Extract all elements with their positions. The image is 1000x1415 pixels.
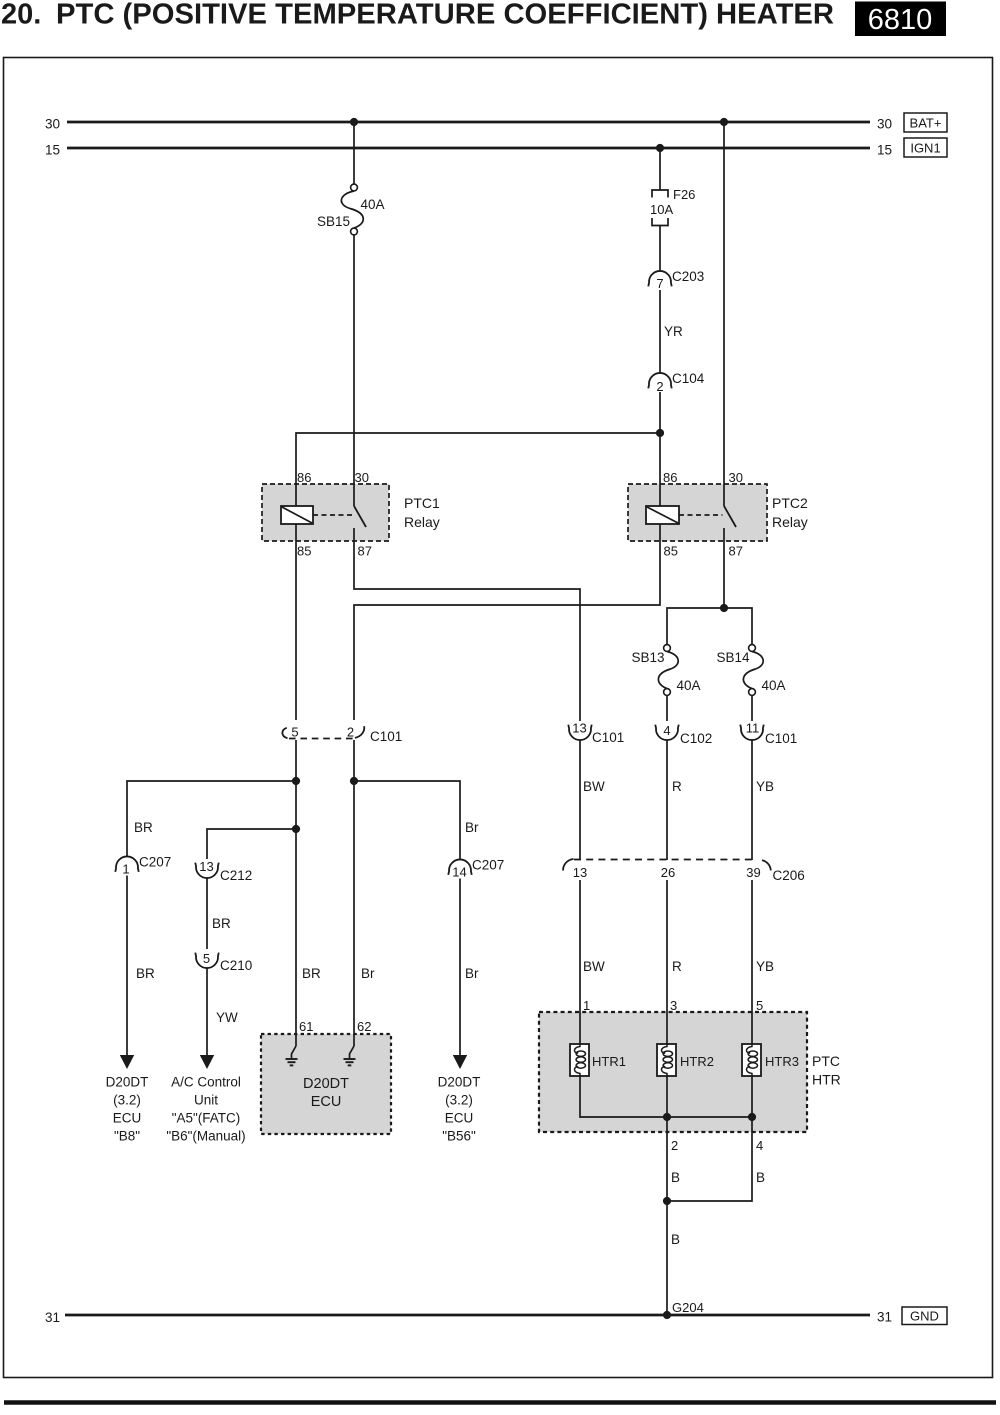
label A/C Control Unit	[166, 1075, 245, 1144]
svg-text:86: 86	[297, 470, 311, 485]
wire C101 pin 5 to junction	[295, 740, 297, 781]
svg-text:SB15: SB15	[317, 214, 350, 229]
junction dot PTC2-87	[720, 604, 728, 612]
svg-text:30: 30	[355, 470, 369, 485]
IGN1 terminal box	[904, 138, 947, 157]
svg-text:BR: BR	[212, 916, 231, 931]
bottom rule	[4, 1400, 996, 1405]
wire SB15 to PTC1 pin 30	[353, 235, 355, 484]
wire PTC1 pin 85 to C101 pin 5	[295, 541, 297, 720]
svg-text:11: 11	[746, 721, 760, 736]
svg-text:2: 2	[347, 725, 354, 740]
svg-text:C207: C207	[472, 858, 504, 873]
svg-text:PTC1: PTC1	[404, 495, 440, 511]
junction dot bus30 / SB15	[350, 118, 358, 126]
svg-text:BAT+: BAT+	[910, 116, 942, 131]
svg-text:ECU: ECU	[311, 1094, 342, 1110]
svg-text:30: 30	[877, 117, 892, 132]
svg-text:GND: GND	[910, 1309, 939, 1324]
svg-text:13: 13	[199, 859, 213, 874]
arrow to A/C control unit	[200, 1055, 214, 1069]
junction dot C104 branch	[656, 429, 664, 437]
svg-text:40A: 40A	[361, 197, 385, 212]
svg-text:85: 85	[664, 544, 678, 559]
junction dot B wires	[663, 1197, 671, 1205]
svg-text:D20DT: D20DT	[438, 1075, 481, 1090]
label D20DT (3.2) ECU B8	[106, 1075, 149, 1144]
svg-text:HTR1: HTR1	[592, 1054, 626, 1069]
svg-text:HTR: HTR	[812, 1072, 841, 1088]
svg-text:BR: BR	[134, 820, 153, 835]
relay PTC2	[628, 470, 808, 559]
connector C101 pin 13	[568, 721, 624, 746]
wire junction to PTC1 pin 86	[296, 433, 660, 484]
svg-text:30: 30	[45, 117, 60, 132]
svg-text:D20DT: D20DT	[106, 1075, 149, 1090]
svg-text:YW: YW	[216, 1010, 238, 1025]
svg-text:D20DT: D20DT	[303, 1076, 349, 1092]
svg-text:BR: BR	[302, 966, 321, 981]
svg-text:Br: Br	[465, 966, 479, 981]
wire C101-11 to C206-39, YB	[752, 740, 774, 860]
svg-text:C206: C206	[773, 868, 805, 883]
wire C206-26 to HTR pin 3, R	[667, 880, 682, 1044]
svg-text:"B56": "B56"	[442, 1129, 476, 1144]
wire C102-4 to C206-26, R	[667, 740, 682, 860]
svg-text:C101: C101	[370, 729, 402, 744]
junction dot pin2 branch	[350, 777, 358, 785]
svg-text:13: 13	[572, 721, 586, 736]
wire junction to SB13	[667, 608, 724, 645]
wire C101 pin 2 to junction	[353, 740, 355, 781]
wire junction to PTC2 pin 86	[659, 433, 661, 484]
svg-text:4: 4	[663, 723, 670, 738]
wire junction to SB14	[724, 608, 752, 645]
svg-text:40A: 40A	[677, 678, 701, 693]
svg-text:31: 31	[877, 1310, 892, 1325]
svg-text:C210: C210	[220, 958, 252, 973]
wire junction to ground G204, B	[667, 1201, 680, 1315]
svg-text:HTR3: HTR3	[765, 1054, 799, 1069]
connector C104 pin 2	[648, 371, 704, 394]
wire HTR pin 2 to junction, B	[667, 1117, 680, 1201]
wire PTC1 pin 87 to C101 pin 13	[354, 541, 580, 721]
wire PTC2 pin 87 to fuse junction	[723, 541, 725, 608]
wire C212 to C210, BR	[207, 878, 231, 949]
wire SB14 to connector C101 pin 11	[751, 696, 753, 722]
svg-text:PTC2: PTC2	[772, 495, 808, 511]
heater element HTR1	[570, 1044, 626, 1076]
svg-text:Unit: Unit	[194, 1093, 218, 1108]
svg-text:2: 2	[656, 379, 663, 394]
svg-text:85: 85	[297, 544, 311, 559]
arrow to D20DT ECU B8	[120, 1055, 134, 1069]
svg-text:PTC (POSITIVE TEMPERATURE COEF: PTC (POSITIVE TEMPERATURE COEFFICIENT) H…	[56, 0, 834, 31]
connector C207 pin 14	[448, 858, 504, 880]
connector C206 pins 13,26,39	[563, 859, 805, 883]
svg-text:62: 62	[357, 1019, 371, 1034]
wire C206-39 to HTR pin 5, YB	[752, 880, 774, 1044]
svg-text:1: 1	[583, 998, 590, 1013]
ground symbol at ECU pin 62	[344, 1046, 356, 1065]
svg-text:YB: YB	[756, 959, 774, 974]
wire C207 pin 14 to D20DT ECU B56, Br	[460, 879, 479, 1057]
arrow to D20DT ECU B56	[453, 1055, 467, 1069]
svg-text:4: 4	[756, 1138, 763, 1153]
svg-text:(3.2): (3.2)	[445, 1093, 473, 1108]
svg-text:20.: 20.	[1, 0, 41, 31]
svg-text:C203: C203	[672, 269, 704, 284]
connector C212 pin 13	[195, 859, 252, 883]
svg-text:C207: C207	[139, 855, 171, 870]
svg-text:31: 31	[45, 1310, 60, 1325]
wire bus30 to fuse SB15	[353, 122, 355, 184]
svg-text:B: B	[756, 1170, 765, 1185]
wire branch to C212	[207, 829, 296, 859]
svg-text:BW: BW	[583, 959, 605, 974]
junction dot C212 branch	[292, 825, 300, 833]
svg-text:YB: YB	[756, 779, 774, 794]
wire C207 pin 1 to D20DT ECU B8, BR	[127, 876, 155, 1057]
svg-text:B: B	[671, 1232, 680, 1247]
label D20DT (3.2) ECU B56	[438, 1075, 481, 1144]
relay PTC1	[262, 470, 440, 559]
svg-text:15: 15	[877, 143, 892, 158]
wire HTR pin 4 to junction, B	[667, 1117, 765, 1201]
svg-text:C101: C101	[765, 731, 797, 746]
ECU box D20DT	[261, 1034, 391, 1134]
junction dot bus30 / PTC2	[720, 118, 728, 126]
node G204	[663, 1300, 704, 1319]
connector C102 pin 4	[655, 723, 712, 746]
fuse F26 10A	[650, 187, 695, 226]
svg-text:3: 3	[670, 998, 677, 1013]
svg-text:B: B	[671, 1170, 680, 1185]
svg-text:15: 15	[45, 143, 60, 158]
wire F26 to connector C203	[659, 226, 661, 272]
svg-text:40A: 40A	[762, 678, 786, 693]
svg-text:BW: BW	[583, 779, 605, 794]
svg-text:C101: C101	[592, 730, 624, 745]
svg-text:ECU: ECU	[445, 1111, 474, 1126]
svg-text:(3.2): (3.2)	[113, 1093, 141, 1108]
fuse SB14 40A	[716, 645, 785, 696]
BAT+ terminal box	[904, 113, 947, 132]
svg-text:Br: Br	[465, 820, 479, 835]
svg-text:5: 5	[203, 951, 210, 966]
svg-text:C104: C104	[672, 371, 705, 386]
svg-text:7: 7	[656, 276, 663, 291]
connector C203 pin 7	[648, 269, 704, 291]
svg-text:ECU: ECU	[113, 1111, 142, 1126]
wire SB13 to connector C102 pin 4	[666, 696, 668, 722]
connector C101 pins 5,2	[282, 725, 402, 745]
fuse SB15 40A	[317, 184, 385, 235]
wire bus15 to fuse F26	[659, 148, 661, 190]
svg-text:6810: 6810	[868, 4, 933, 36]
svg-text:Br: Br	[361, 966, 375, 981]
wire junction to ECU pin 62, Br	[354, 781, 375, 1046]
connector C101 pin 11	[740, 721, 797, 747]
svg-text:HTR2: HTR2	[680, 1054, 714, 1069]
wire junction to ECU pin 61, BR	[296, 781, 321, 1046]
wire HTR3 bottom to common bus	[751, 1076, 753, 1117]
svg-text:C102: C102	[680, 731, 712, 746]
svg-text:61: 61	[299, 1019, 313, 1034]
svg-text:2: 2	[671, 1138, 678, 1153]
svg-text:13: 13	[573, 865, 587, 880]
ground bus 31	[45, 1310, 892, 1326]
wire C206-13 to HTR pin 1, BW	[580, 880, 605, 1044]
junction dot HTR3 bus	[748, 1113, 756, 1121]
svg-text:"A5"(FATC): "A5"(FATC)	[172, 1111, 241, 1126]
wire branch left to C207 pin 1, BR	[127, 781, 296, 857]
svg-text:Relay: Relay	[404, 514, 440, 530]
junction dot pin5 branch	[292, 777, 300, 785]
svg-text:30: 30	[729, 470, 743, 485]
svg-text:C212: C212	[220, 868, 252, 883]
svg-text:1: 1	[122, 862, 129, 877]
PTC HTR box	[539, 1012, 841, 1132]
wire HTR1 bottom to common bus	[580, 1076, 752, 1117]
svg-text:SB14: SB14	[716, 650, 750, 665]
connector C210 pin 5	[195, 951, 252, 973]
ground symbol at ECU pin 61	[286, 1046, 298, 1065]
GND terminal box	[902, 1307, 947, 1325]
junction dot bus15 / F26	[656, 144, 664, 152]
bus 15 (IGN1)	[45, 143, 892, 158]
page number box 6810	[855, 2, 946, 37]
svg-text:39: 39	[746, 865, 760, 880]
wire C104 to junction node	[659, 392, 661, 433]
wire C203 to C104, YR	[660, 290, 683, 373]
wire C101-13 to C206-13, BW	[580, 740, 605, 860]
svg-text:PTC: PTC	[812, 1053, 840, 1069]
wire branch right to C207 pin 14, Br	[354, 781, 479, 860]
svg-text:87: 87	[729, 544, 743, 559]
svg-text:"B8": "B8"	[114, 1129, 140, 1144]
wire bus30 to PTC2 pin 30	[723, 122, 725, 484]
heater element HTR3	[742, 1044, 799, 1076]
svg-text:87: 87	[358, 544, 372, 559]
svg-text:F26: F26	[673, 187, 695, 202]
svg-text:"B6"(Manual): "B6"(Manual)	[166, 1129, 245, 1144]
bus 30 (BAT+)	[45, 117, 892, 132]
svg-text:G204: G204	[672, 1300, 704, 1315]
fuse SB13 40A	[631, 645, 700, 696]
wire HTR2 bottom to common bus	[666, 1076, 668, 1117]
svg-text:10A: 10A	[650, 202, 673, 217]
wire C210 to A/C control unit, YW	[207, 968, 238, 1056]
wire PTC2 pin 85 to C101 pin 2	[354, 541, 660, 720]
svg-text:5: 5	[756, 998, 763, 1013]
svg-text:86: 86	[663, 470, 677, 485]
junction dot HTR2 bus	[663, 1113, 671, 1121]
svg-text:26: 26	[661, 865, 675, 880]
svg-text:5: 5	[291, 725, 298, 740]
svg-text:YR: YR	[664, 324, 683, 339]
svg-text:IGN1: IGN1	[910, 141, 940, 156]
page title	[1, 0, 834, 31]
svg-text:R: R	[672, 959, 682, 974]
svg-text:Relay: Relay	[772, 514, 808, 530]
svg-text:A/C Control: A/C Control	[171, 1075, 241, 1090]
svg-text:BR: BR	[136, 966, 155, 981]
svg-text:14: 14	[452, 865, 466, 880]
connector C207 pin 1	[115, 855, 171, 877]
svg-text:SB13: SB13	[631, 650, 664, 665]
heater element HTR2	[657, 1044, 714, 1076]
svg-text:R: R	[672, 779, 682, 794]
